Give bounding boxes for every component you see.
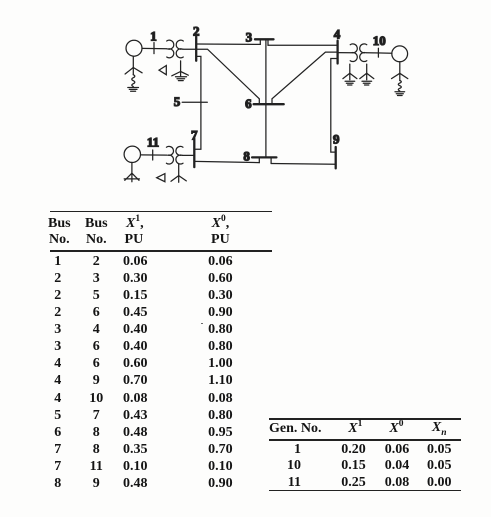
bus 9 <box>335 147 337 168</box>
left table data columns <box>36 253 80 492</box>
wire bus 4 to bus 6 <box>272 52 338 104</box>
svg-text:6: 6 <box>245 96 252 111</box>
wire bus 8 to bus 9 <box>271 163 336 166</box>
transformer T10 winding left <box>350 44 357 62</box>
generator table data columns <box>271 442 301 492</box>
wire bus 4 to T10 <box>338 52 352 54</box>
tick line 1 <box>153 43 155 54</box>
generator table: top rule <box>269 418 461 420</box>
wire bus 2 to bus 3 <box>196 43 260 45</box>
wire bus 2 to bus 6 <box>196 49 259 104</box>
bus 6 <box>254 103 284 105</box>
left table: header rule <box>50 250 272 252</box>
wye symbol of T11 <box>171 164 186 183</box>
hook at bus 8 right <box>270 157 272 163</box>
bus 7 <box>193 139 195 168</box>
wye-ground symbol of T10 left <box>343 64 357 85</box>
svg-text:4: 4 <box>334 26 341 41</box>
generator table: header rule <box>269 439 461 441</box>
tick line 10 <box>377 48 379 57</box>
svg-text:9: 9 <box>333 132 340 147</box>
wire T10 to G10 <box>366 52 392 55</box>
wire G1 to T1 <box>142 47 167 49</box>
svg-text:8: 8 <box>243 149 250 164</box>
generator table headers <box>269 421 322 437</box>
svg-text:10: 10 <box>373 33 386 48</box>
wire bus 7 to bus 8 <box>194 161 259 162</box>
generator G1 <box>126 40 142 56</box>
svg-text:2: 2 <box>193 24 200 39</box>
svg-text:11: 11 <box>147 135 159 150</box>
left table headers <box>48 216 71 232</box>
generator table: bottom rule <box>269 490 461 492</box>
bus 8 <box>252 156 276 158</box>
ground of G10 with neutral reactor <box>392 62 408 96</box>
wye-ground symbol of T10 right <box>360 64 374 85</box>
ground of G1 with neutral reactor <box>125 56 142 91</box>
tick line 11 <box>152 150 154 160</box>
hook at bus 3 left <box>259 39 261 44</box>
wire G11 to T11 <box>141 154 167 156</box>
hook at bus 8 left <box>258 157 260 162</box>
wire bus 2 to bus 7 <box>194 56 201 149</box>
bus 4 <box>336 41 338 64</box>
wire bus 3 to bus 4 <box>268 44 338 46</box>
hook at bus 3 right <box>267 39 269 45</box>
ground of G11 solidly grounded <box>124 162 139 181</box>
bus 3 <box>255 38 274 40</box>
bus 2 <box>195 37 197 61</box>
svg-text:3: 3 <box>246 30 253 45</box>
transformer T1 winding right <box>176 40 183 58</box>
transformer T11 winding right <box>176 146 183 164</box>
transformer T10 winding right <box>360 44 367 62</box>
wire bus 3 to bus 6 to bus 8 <box>265 39 267 157</box>
delta winding symbol of T11 <box>157 174 165 182</box>
generator G11 <box>124 146 140 162</box>
wire bus 4 to bus 9 <box>331 59 338 153</box>
wire T1 to bus 2 <box>183 48 197 50</box>
svg-text:1: 1 <box>150 28 157 43</box>
svg-text:7: 7 <box>191 127 198 142</box>
generator G10 <box>392 46 408 62</box>
wye-ground symbol of T1 <box>172 61 189 81</box>
wire T11 to bus 7 <box>182 154 194 156</box>
delta winding symbol of T1 <box>159 66 166 75</box>
tick line 5 <box>182 101 207 103</box>
transformer T11 winding left <box>166 146 173 164</box>
svg-text:5: 5 <box>174 94 181 109</box>
transformer T1 winding left <box>167 40 174 58</box>
left table: top rule <box>50 211 272 213</box>
